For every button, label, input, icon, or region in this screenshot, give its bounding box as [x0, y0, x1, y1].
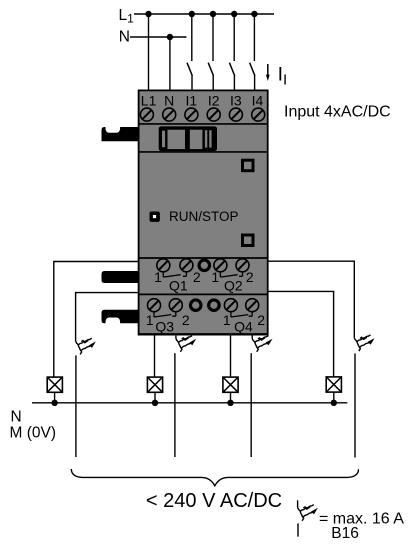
- wire lamp E4 to N rail: [333, 392, 335, 403]
- input current arrow: [266, 64, 270, 81]
- wire breaker F2 down past N rail: [174, 353, 176, 457]
- wire Q4 output to lamp E4 (right horizontal): [268, 291, 334, 376]
- lamp E3: [223, 377, 238, 392]
- relay Q1 screw 2: [180, 259, 193, 272]
- svg-text:I1: I1: [186, 92, 198, 108]
- junction on L1 for input I2: [210, 11, 216, 17]
- screw terminal I4: [252, 108, 265, 121]
- relay Q3 screw 1: [148, 299, 161, 312]
- wire Q4 terminal2 to breaker F3: [251, 335, 253, 339]
- wire Q1 output to lamp E1 (left horizontal): [54, 262, 139, 377]
- black tab left Q1 row: [102, 271, 139, 283]
- wire Q1 terminal2 (left horizontal to breaker F1): [76, 293, 139, 342]
- module section border between Q1/Q2 and Q3/Q4: [138, 293, 268, 295]
- small square indicator bottom-right: [243, 235, 254, 246]
- svg-text:Q2: Q2: [224, 278, 243, 294]
- svg-text:2: 2: [257, 312, 265, 328]
- relay Q2 screw 2: [236, 259, 249, 272]
- svg-text:N: N: [119, 29, 130, 46]
- relay Q4 screw 1: [224, 299, 237, 312]
- wire drop I2 upper: [212, 14, 214, 61]
- module bottom border: [138, 333, 268, 335]
- module section border below input screws: [138, 123, 268, 125]
- wire breaker F1 down past N rail: [75, 355, 77, 457]
- svg-text:Q4: Q4: [234, 318, 253, 334]
- svg-text:1: 1: [146, 312, 154, 328]
- junction on L1 for input I1: [189, 11, 195, 17]
- wire Q2 terminal2 (right horizontal to breaker F4): [268, 261, 355, 338]
- ring opening Q4: [209, 300, 220, 311]
- wire drop N to module: [169, 37, 171, 91]
- wire N rail bottom: [32, 402, 347, 404]
- junction on L1 for input I4: [251, 11, 257, 17]
- wire L1 supply line: [134, 13, 274, 15]
- junction on L1 for terminal L1: [145, 11, 151, 17]
- lamp E4: [326, 377, 341, 392]
- relay Q4 contact: [231, 312, 252, 317]
- wire drop L1 to module: [148, 14, 150, 91]
- svg-text:1: 1: [211, 269, 219, 285]
- RUN/STOP LED icon: [150, 212, 160, 222]
- relay Q3 screw 2: [169, 299, 182, 312]
- svg-text:Q1: Q1: [169, 278, 188, 294]
- junction on L1 for input I3: [231, 11, 237, 17]
- wire drop I1 lower: [191, 75, 193, 91]
- svg-text:I4: I4: [252, 92, 264, 108]
- relay Q1 screw 1: [157, 259, 170, 272]
- svg-text:B16: B16: [331, 525, 359, 542]
- legend breaker symbol: [298, 500, 318, 536]
- wire lamp E3 to N rail: [230, 392, 232, 403]
- svg-text:II: II: [278, 64, 288, 89]
- screw terminal N: [163, 108, 176, 121]
- svg-text:1: 1: [154, 269, 162, 285]
- svg-text:N: N: [11, 409, 22, 426]
- breaker F4: [354, 335, 374, 351]
- wire Q4 terminal1 to lamp E3: [230, 335, 232, 377]
- brace for phase conductors: [71, 469, 358, 486]
- svg-text:Q3: Q3: [155, 318, 174, 334]
- breaker F2: [176, 336, 196, 352]
- small square indicator top-right: [243, 160, 254, 171]
- relay Q4 screw 2: [246, 299, 259, 312]
- wire lamp E1 to N rail: [54, 392, 56, 403]
- wire lamp E2 to N rail: [154, 392, 156, 403]
- display unit of module: [159, 126, 217, 151]
- screw terminal I2: [207, 108, 220, 121]
- junction lamp E4 on N rail: [331, 400, 337, 406]
- module section border above Q1/Q2: [138, 257, 268, 259]
- junction lamp E1 on N rail: [51, 400, 57, 406]
- switch S3 blade: [229, 63, 234, 76]
- svg-text:2: 2: [182, 312, 190, 328]
- svg-text:N: N: [164, 92, 174, 108]
- screw terminal I3: [229, 108, 242, 121]
- relay Q2 contact: [220, 272, 242, 277]
- screw terminal L1: [140, 108, 153, 121]
- wire drop I4 upper: [253, 14, 255, 61]
- relay Q1 contact: [163, 272, 186, 277]
- svg-text:I3: I3: [230, 92, 242, 108]
- lamp E1: [47, 377, 62, 392]
- switch S4 blade: [250, 63, 255, 76]
- wire drop I3 upper: [233, 14, 235, 61]
- junction lamp E3 on N rail: [227, 400, 233, 406]
- wire drop I1 upper: [191, 14, 193, 61]
- wire breaker F3 down past N rail: [250, 353, 252, 457]
- wire drop I2 lower: [212, 75, 214, 91]
- black tab left Q3 row: [102, 310, 139, 324]
- lamp E2: [147, 377, 162, 392]
- DIN clip black tab top-left: [102, 127, 139, 141]
- junction lamp E2 on N rail: [152, 400, 158, 406]
- wire Q3 terminal1 to lamp E2: [154, 335, 156, 377]
- svg-text:M (0V): M (0V): [10, 425, 57, 442]
- wire N supply line: [130, 36, 187, 38]
- breaker F3: [252, 336, 272, 352]
- wire drop I3 lower: [233, 75, 235, 91]
- svg-text:I2: I2: [208, 92, 220, 108]
- svg-text:L1: L1: [119, 7, 135, 26]
- svg-text:< 240 V AC/DC: < 240 V AC/DC: [146, 490, 282, 512]
- module section border below display band: [138, 151, 268, 153]
- svg-text:Input 4xAC/DC: Input 4xAC/DC: [284, 104, 391, 121]
- breaker F1: [76, 338, 96, 354]
- switch S2 blade: [208, 63, 213, 76]
- ring opening Q1/Q2: [199, 260, 210, 271]
- svg-text:RUN/STOP: RUN/STOP: [169, 209, 239, 224]
- svg-text:2: 2: [193, 269, 201, 285]
- wire drop I4 lower: [254, 75, 256, 91]
- wire Q3 terminal2 to breaker F2: [175, 335, 177, 339]
- switch S1 blade: [187, 63, 192, 76]
- wire breaker F4 down past N rail: [354, 353, 356, 457]
- screw terminal I1: [185, 108, 198, 121]
- svg-text:1: 1: [223, 312, 231, 328]
- svg-text:2: 2: [246, 269, 254, 285]
- module U1 LOGO! body: [139, 90, 268, 334]
- relay Q2 screw 1: [214, 259, 227, 272]
- junction on N for terminal N: [167, 34, 173, 40]
- relay Q3 contact: [154, 312, 176, 317]
- svg-text:L1: L1: [141, 92, 157, 108]
- ring opening Q3: [190, 300, 201, 311]
